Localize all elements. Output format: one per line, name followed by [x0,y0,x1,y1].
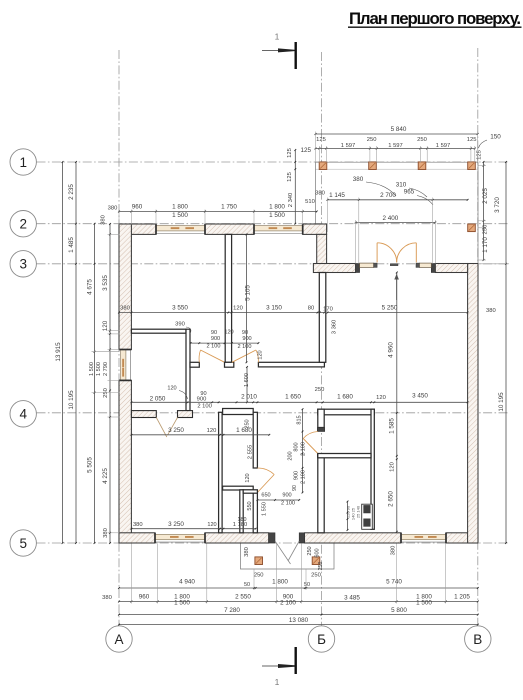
axis line A (vertical) [118,50,120,626]
bottom total 13080 [119,624,478,626]
svg-text:310: 310 [396,182,407,189]
svg-text:250: 250 [307,546,313,555]
axis B wall pier at top [317,234,327,263]
terrace slab edge right [477,162,479,263]
svg-text:2 550: 2 550 [235,594,251,601]
wall H1 below bedroom 1 [131,329,186,333]
svg-text:10 195: 10 195 [68,390,75,410]
svg-text:650: 650 [261,493,270,499]
interior dim row rooms at y312 [119,312,324,314]
svg-text:380: 380 [133,522,143,528]
svg-text:2 100: 2 100 [301,470,307,484]
axis circle 1 [10,149,36,175]
right chain 3720 10195 [505,162,507,543]
svg-text:4 225: 4 225 [102,468,109,484]
svg-text:900: 900 [211,336,220,342]
dimension 5840 terrace width [316,133,478,135]
svg-text:1 500: 1 500 [172,212,188,219]
interior dim 5250 living room [328,312,468,314]
svg-text:800: 800 [294,442,300,451]
svg-text:960: 960 [139,594,150,601]
living room vertical chain [396,273,398,532]
section mark 1 top [295,42,297,69]
axis line 1 (horizontal) [37,161,510,163]
WC room top wall H4 [318,409,375,415]
bottom chain detailed [119,601,478,603]
svg-text:50: 50 [244,582,250,588]
svg-text:3 550: 3 550 [172,305,188,312]
svg-text:250: 250 [367,137,377,143]
living room top wall (axis 3) [313,264,355,273]
french door hinge blocks [374,263,377,267]
svg-text:13 915: 13 915 [55,342,62,362]
svg-text:510: 510 [305,199,315,205]
door D2 in wall H2 [232,350,256,362]
svg-text:3 485: 3 485 [344,595,360,602]
svg-text:4 675: 4 675 [87,279,94,295]
wall H5 below WC room 1 [318,454,371,458]
svg-text:600: 600 [315,548,321,557]
svg-text:13 080: 13 080 [289,617,309,624]
svg-text:1 750: 1 750 [221,204,237,211]
terrace column K2 [369,162,377,170]
window jamb caps bottom wall [154,533,156,543]
svg-text:250: 250 [318,562,324,571]
svg-text:3: 3 [19,257,27,272]
svg-text:125: 125 [316,137,326,143]
svg-text:125: 125 [467,137,477,143]
terrace door sidelight left [360,263,374,267]
svg-text:380: 380 [315,190,325,196]
svg-text:250: 250 [417,137,427,143]
svg-text:1 500: 1 500 [96,362,102,376]
svg-text:1 500: 1 500 [416,599,432,606]
svg-text:380: 380 [108,206,118,212]
svg-text:965: 965 [404,189,415,196]
jog wall V5 between H1 and H2 [186,329,190,410]
extension lines terrace door dims [358,198,360,264]
svg-text:2 025: 2 025 [482,188,489,204]
terrace slab edge left [315,162,317,224]
terrace slab outline top [316,161,479,163]
svg-text:250: 250 [245,419,251,428]
svg-text:250: 250 [311,573,321,579]
svg-text:2 790: 2 790 [103,362,109,376]
svg-text:1: 1 [19,155,27,170]
svg-text:4 940: 4 940 [179,578,195,585]
svg-text:2 100: 2 100 [197,404,212,410]
svg-text:900: 900 [197,397,207,403]
svg-text:900: 900 [294,471,300,480]
door D7 in hall partition P2 [257,475,274,493]
svg-text:5 250: 5 250 [382,305,398,312]
svg-text:3 360: 3 360 [332,320,338,335]
svg-text:900: 900 [282,493,291,499]
svg-text:1 145: 1 145 [329,192,345,199]
svg-text:1 597: 1 597 [388,143,403,149]
svg-text:1 597: 1 597 [436,143,451,149]
svg-text:2 100: 2 100 [301,442,307,456]
svg-text:390: 390 [175,322,185,328]
axis circle 4 [10,401,36,427]
closet partition P5 [240,490,243,533]
svg-text:2 100: 2 100 [238,344,252,350]
partition P4 right of bottom-left room [219,412,223,533]
svg-text:5: 5 [19,536,27,551]
exterior bottom wall (axis 5) [119,533,155,543]
svg-text:380: 380 [120,306,130,312]
extension lines right chains [478,165,486,167]
svg-text:3 250: 3 250 [168,427,184,434]
wall H3 along axis 4 (bottom-left room top) [131,411,156,418]
hall vertical dim chain [302,409,304,492]
svg-text:2 235: 2 235 [68,184,75,200]
svg-text:250: 250 [254,573,264,579]
svg-text:В: В [473,632,482,647]
svg-text:1 597: 1 597 [341,143,356,149]
dim row above bottom wall left [131,528,255,530]
door D4 to WC room 1 (swings into hall) [303,439,318,454]
window W5 in bottom wall [401,534,446,539]
exterior right wall (axis V) [468,264,478,544]
porch slab outline bottom [241,543,335,569]
axis B interior wall between bedroom2 and living room [319,273,326,363]
svg-text:1 800: 1 800 [269,204,285,211]
svg-text:380: 380 [486,308,496,314]
svg-text:5 105: 5 105 [245,285,252,301]
svg-text:120: 120 [245,473,251,482]
terrace column K1 [319,162,327,170]
svg-text:3 450: 3 450 [412,393,428,400]
window jamb caps top wall [155,224,157,234]
WC room left wall [318,409,324,427]
svg-text:1 170: 1 170 [482,237,489,253]
svg-text:2 340: 2 340 [288,193,294,208]
extension lines above top wall [118,210,120,225]
svg-text:1 680: 1 680 [337,394,353,401]
svg-text:План першого поверху.: План першого поверху. [349,9,521,28]
svg-text:125: 125 [287,172,293,182]
dimension row terrace columns [316,148,475,150]
exterior top wall (axis 2) [119,224,156,234]
svg-text:380: 380 [101,215,107,225]
svg-text:960: 960 [132,204,143,211]
axis line 3 (horizontal) [37,263,510,265]
svg-text:120: 120 [207,522,216,528]
svg-text:1: 1 [275,32,280,42]
svg-text:5 505: 5 505 [87,457,94,473]
svg-text:380: 380 [244,547,250,557]
dimension row top wall windows [119,211,317,213]
left axis chain 2235 1485 10195 [75,162,77,543]
left chain 4675 5505 [94,224,96,543]
left chain wall details [109,224,111,543]
svg-text:4 960: 4 960 [388,342,395,358]
ventilation shaft with flues [362,504,373,529]
axis line 4 (horizontal) [37,412,510,414]
terrace door jambs [356,264,360,273]
svg-text:2 400: 2 400 [383,215,399,222]
axis circle 2 [10,211,36,237]
partition V4 right of WC rooms [371,409,374,529]
svg-text:2 700: 2 700 [380,192,396,199]
terrace column K3 [418,162,426,170]
svg-text:380: 380 [102,595,112,601]
entrance direction arrow [396,275,398,300]
svg-text:1 800: 1 800 [172,204,188,211]
axis circle V [465,626,491,652]
svg-text:250: 250 [483,225,489,235]
svg-text:10 195: 10 195 [498,392,505,412]
svg-text:120: 120 [207,428,217,434]
hall partition P2 [253,412,257,468]
svg-text:3 250: 3 250 [168,521,184,528]
svg-text:120: 120 [258,350,264,359]
door D3 leaves in wall H3 [156,418,167,438]
svg-text:120: 120 [167,385,176,391]
axis circle A [106,626,132,652]
svg-text:250: 250 [315,387,325,393]
door D1 left of partition P1 [201,350,225,362]
svg-text:380: 380 [353,176,364,183]
svg-text:125: 125 [287,148,293,158]
svg-text:3 720: 3 720 [494,197,501,213]
axis line B (vertical) [321,52,323,626]
svg-text:2 050: 2 050 [150,395,166,402]
axis line 2 (horizontal) [37,223,510,225]
terrace column K5 [468,224,476,232]
svg-text:5 800: 5 800 [391,607,407,614]
axis circle B [308,626,334,652]
axis line 5 (horizontal) [37,542,510,544]
window W4 in bottom wall [155,534,205,539]
svg-text:120: 120 [376,395,386,401]
window W2 in top wall [254,226,303,231]
svg-text:380: 380 [391,546,397,556]
svg-text:2 555: 2 555 [248,445,254,460]
exterior left wall (axis A) [119,224,131,350]
left total dimension 13915 [62,162,64,543]
window jamb caps left wall [119,349,131,351]
svg-text:250: 250 [103,388,109,398]
window W1 in top wall [156,226,205,231]
svg-text:25 140: 25 140 [356,505,361,518]
svg-text:2 100: 2 100 [207,343,221,349]
svg-text:1: 1 [275,677,280,687]
svg-text:1 500: 1 500 [174,599,190,606]
svg-text:1 180: 1 180 [233,522,248,528]
svg-text:Б: Б [317,632,326,647]
dimension row 1145 2700 965 (axis B to V) [328,199,468,201]
dimension 2400 terrace door [356,222,436,224]
svg-text:2 100: 2 100 [280,599,296,606]
axis circle 5 [10,530,36,556]
svg-text:3 150: 3 150 [266,305,282,312]
french door right leaf and swing [415,243,417,263]
section mark 1 bottom [295,647,297,674]
french door left leaf and swing [376,243,378,263]
entry door jambs in bottom wall [269,533,275,543]
svg-text:200: 200 [288,451,294,460]
terrace door sidelight right [419,263,431,267]
svg-text:4: 4 [19,407,27,422]
svg-text:7 280: 7 280 [224,607,240,614]
svg-text:1 585: 1 585 [388,418,395,434]
partition P1 between bedroom 1 and bedroom 2 [225,234,231,362]
svg-text:1 205: 1 205 [454,594,470,601]
axis line V (vertical) [477,48,479,626]
svg-text:80: 80 [308,306,314,312]
wall H2 pier below partition P1 [225,362,234,367]
extension lines below bottom wall [157,544,159,604]
extension lines terrace columns [318,146,320,163]
svg-text:120: 120 [102,320,109,331]
bottom chain 4940 50 1800 50 5740 [119,587,478,589]
entry door swing at bottom porch [275,541,291,564]
dim 5105 bedroom 2 [246,234,248,362]
svg-text:900: 900 [242,336,251,342]
svg-text:2: 2 [19,217,27,232]
svg-text:3 535: 3 535 [102,275,109,291]
svg-text:1 650: 1 650 [285,394,301,401]
svg-text:5 740: 5 740 [386,578,402,585]
wall H2 south of bedroom 2 [258,362,324,367]
closet wall stub [243,490,257,493]
window W3 in left wall [121,350,126,381]
svg-text:120: 120 [389,462,395,472]
svg-text:1 500: 1 500 [269,212,285,219]
wall H2 left stub [190,362,199,367]
svg-text:120: 120 [224,330,233,336]
closet top wall H3b [223,409,254,415]
svg-text:А: А [114,632,123,647]
svg-text:1 485: 1 485 [68,237,75,253]
svg-text:1 500: 1 500 [89,362,95,376]
right chain 125 2025 250 1170 [483,162,485,260]
svg-text:2 010: 2 010 [241,394,257,401]
svg-text:125: 125 [300,147,311,154]
svg-text:150: 150 [490,134,501,141]
svg-text:1 800: 1 800 [272,578,288,585]
svg-text:50: 50 [304,582,310,588]
svg-text:550: 550 [247,501,253,510]
dim row bottom-left room [131,434,269,436]
axis B top dim chain 125 125 2340 [294,150,296,224]
dim row axis4 area [179,391,188,400]
svg-text:5 840: 5 840 [391,126,407,133]
terrace column K4 [468,162,476,170]
extension lines left chains [108,233,120,235]
svg-text:120: 120 [233,306,243,312]
svg-text:90: 90 [292,485,298,491]
svg-text:2 100: 2 100 [281,501,295,507]
closet shelf wall H6 [223,486,254,490]
svg-text:815: 815 [297,415,303,424]
porch column K6 [255,557,263,565]
porch column K7 [312,557,320,565]
svg-text:2 650: 2 650 [387,491,394,507]
svg-text:1 550: 1 550 [262,502,268,516]
bottom chain 7280 5800 [119,614,478,616]
axis circle 3 [10,251,36,277]
